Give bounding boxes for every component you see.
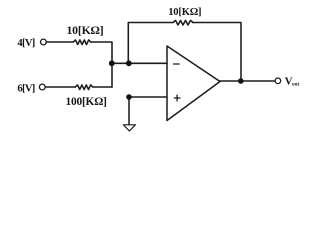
terminal 4[V] input — [41, 39, 47, 45]
wire op-amp output — [220, 80, 275, 82]
wire node to op-amp inverting input — [112, 62, 167, 64]
op-amp minus sign — [174, 63, 180, 65]
junction node D (output / feedback) — [238, 78, 244, 84]
junction node C (ground / + input) — [126, 94, 132, 100]
terminal 6[V] input — [39, 84, 45, 90]
svg-text:100[KΩ]: 100[KΩ] — [65, 96, 106, 108]
resistor R2 100[KΩ] — [75, 85, 93, 90]
resistor R1 10[KΩ] — [73, 40, 91, 45]
svg-text:10[KΩ]: 10[KΩ] — [168, 7, 201, 18]
op-amp plus sign — [174, 97, 180, 99]
wire feedback left vertical — [127, 23, 129, 64]
wire feedback top left segment — [128, 22, 173, 24]
resistor R3 feedback 10[KΩ] — [173, 20, 193, 25]
svg-text:out: out — [292, 81, 299, 87]
wire R1 to node — [91, 42, 112, 87]
wire R2 to node — [93, 86, 112, 88]
svg-text:4[V]: 4[V] — [17, 38, 34, 49]
op-amp U1 triangle — [167, 46, 220, 121]
wire 4V input to resistor R1 — [46, 41, 73, 43]
junction node B (feedback tap) — [126, 60, 132, 66]
junction node A (summing node at vertical) — [109, 60, 115, 66]
wire op-amp noninverting input — [129, 96, 167, 98]
terminal Vout — [275, 78, 281, 84]
wire ground stub — [128, 97, 130, 125]
ground symbol — [123, 125, 135, 131]
wire 6V input to resistor R2 — [45, 86, 75, 88]
svg-text:10[KΩ]: 10[KΩ] — [66, 23, 103, 37]
wire feedback top right segment — [193, 23, 241, 82]
svg-text:6[V]: 6[V] — [17, 83, 34, 94]
